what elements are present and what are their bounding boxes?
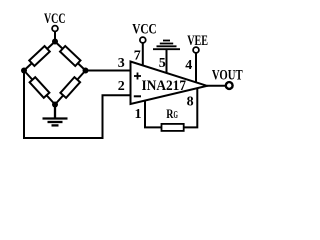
svg-text:G: G [174,110,179,121]
svg-text:VEE: VEE [187,33,208,49]
resistor R1 (bridge top-left) [29,46,50,66]
resistor R3 (bridge bottom-left) [30,77,50,98]
svg-text:5: 5 [159,56,166,71]
op-amp plus input marking [134,73,141,80]
svg-text:VCC: VCC [132,22,157,38]
wire ground to pin 5 [166,49,168,73]
node bridge top [52,39,58,45]
svg-text:VCC: VCC [44,11,66,27]
svg-text:VOUT: VOUT [212,67,243,83]
wire pin 8 to RG [184,89,198,128]
power terminal VCC (op-amp) [140,37,146,43]
svg-text:7: 7 [134,48,141,63]
power terminal VCC (bridge) [52,26,58,32]
node bridge bottom [52,102,58,108]
wire op-amp output to VOUT terminal [207,85,225,87]
output terminal VOUT [226,82,233,89]
op-amp minus input marking [134,95,141,97]
wire bridge left node to op-amp pin 2 (around bottom) [24,71,131,139]
wire bridge right node to op-amp pin 3 [86,70,131,72]
svg-text:4: 4 [185,58,192,73]
wire bridge arm top-right [55,42,86,71]
svg-text:1: 1 [135,107,142,122]
op-amp U1 INA217 triangle [131,62,208,105]
resistor R4 (bridge bottom-right) [60,77,80,98]
svg-text:INA217: INA217 [142,78,187,94]
node bridge left [21,68,27,74]
svg-text:8: 8 [187,95,194,110]
wire VEE terminal to pin 4 [195,53,197,82]
ground (pin 5, pointing up) [153,41,180,50]
power terminal VEE [193,47,199,53]
ground (bridge bottom) [43,106,68,125]
resistor RG [162,124,184,131]
wire pin 1 to RG [145,101,162,127]
svg-text:3: 3 [118,56,125,71]
wire VCC terminal to bridge top node [54,32,56,44]
wire bridge arm bottom-left [24,71,55,105]
wire VCC terminal to pin 7 [142,44,144,66]
node bridge right [83,68,89,74]
resistor R2 (bridge top-right) [60,46,80,66]
wire bridge arm top-left [24,42,55,71]
svg-text:2: 2 [118,79,125,94]
wire bridge arm bottom-right [55,71,86,105]
